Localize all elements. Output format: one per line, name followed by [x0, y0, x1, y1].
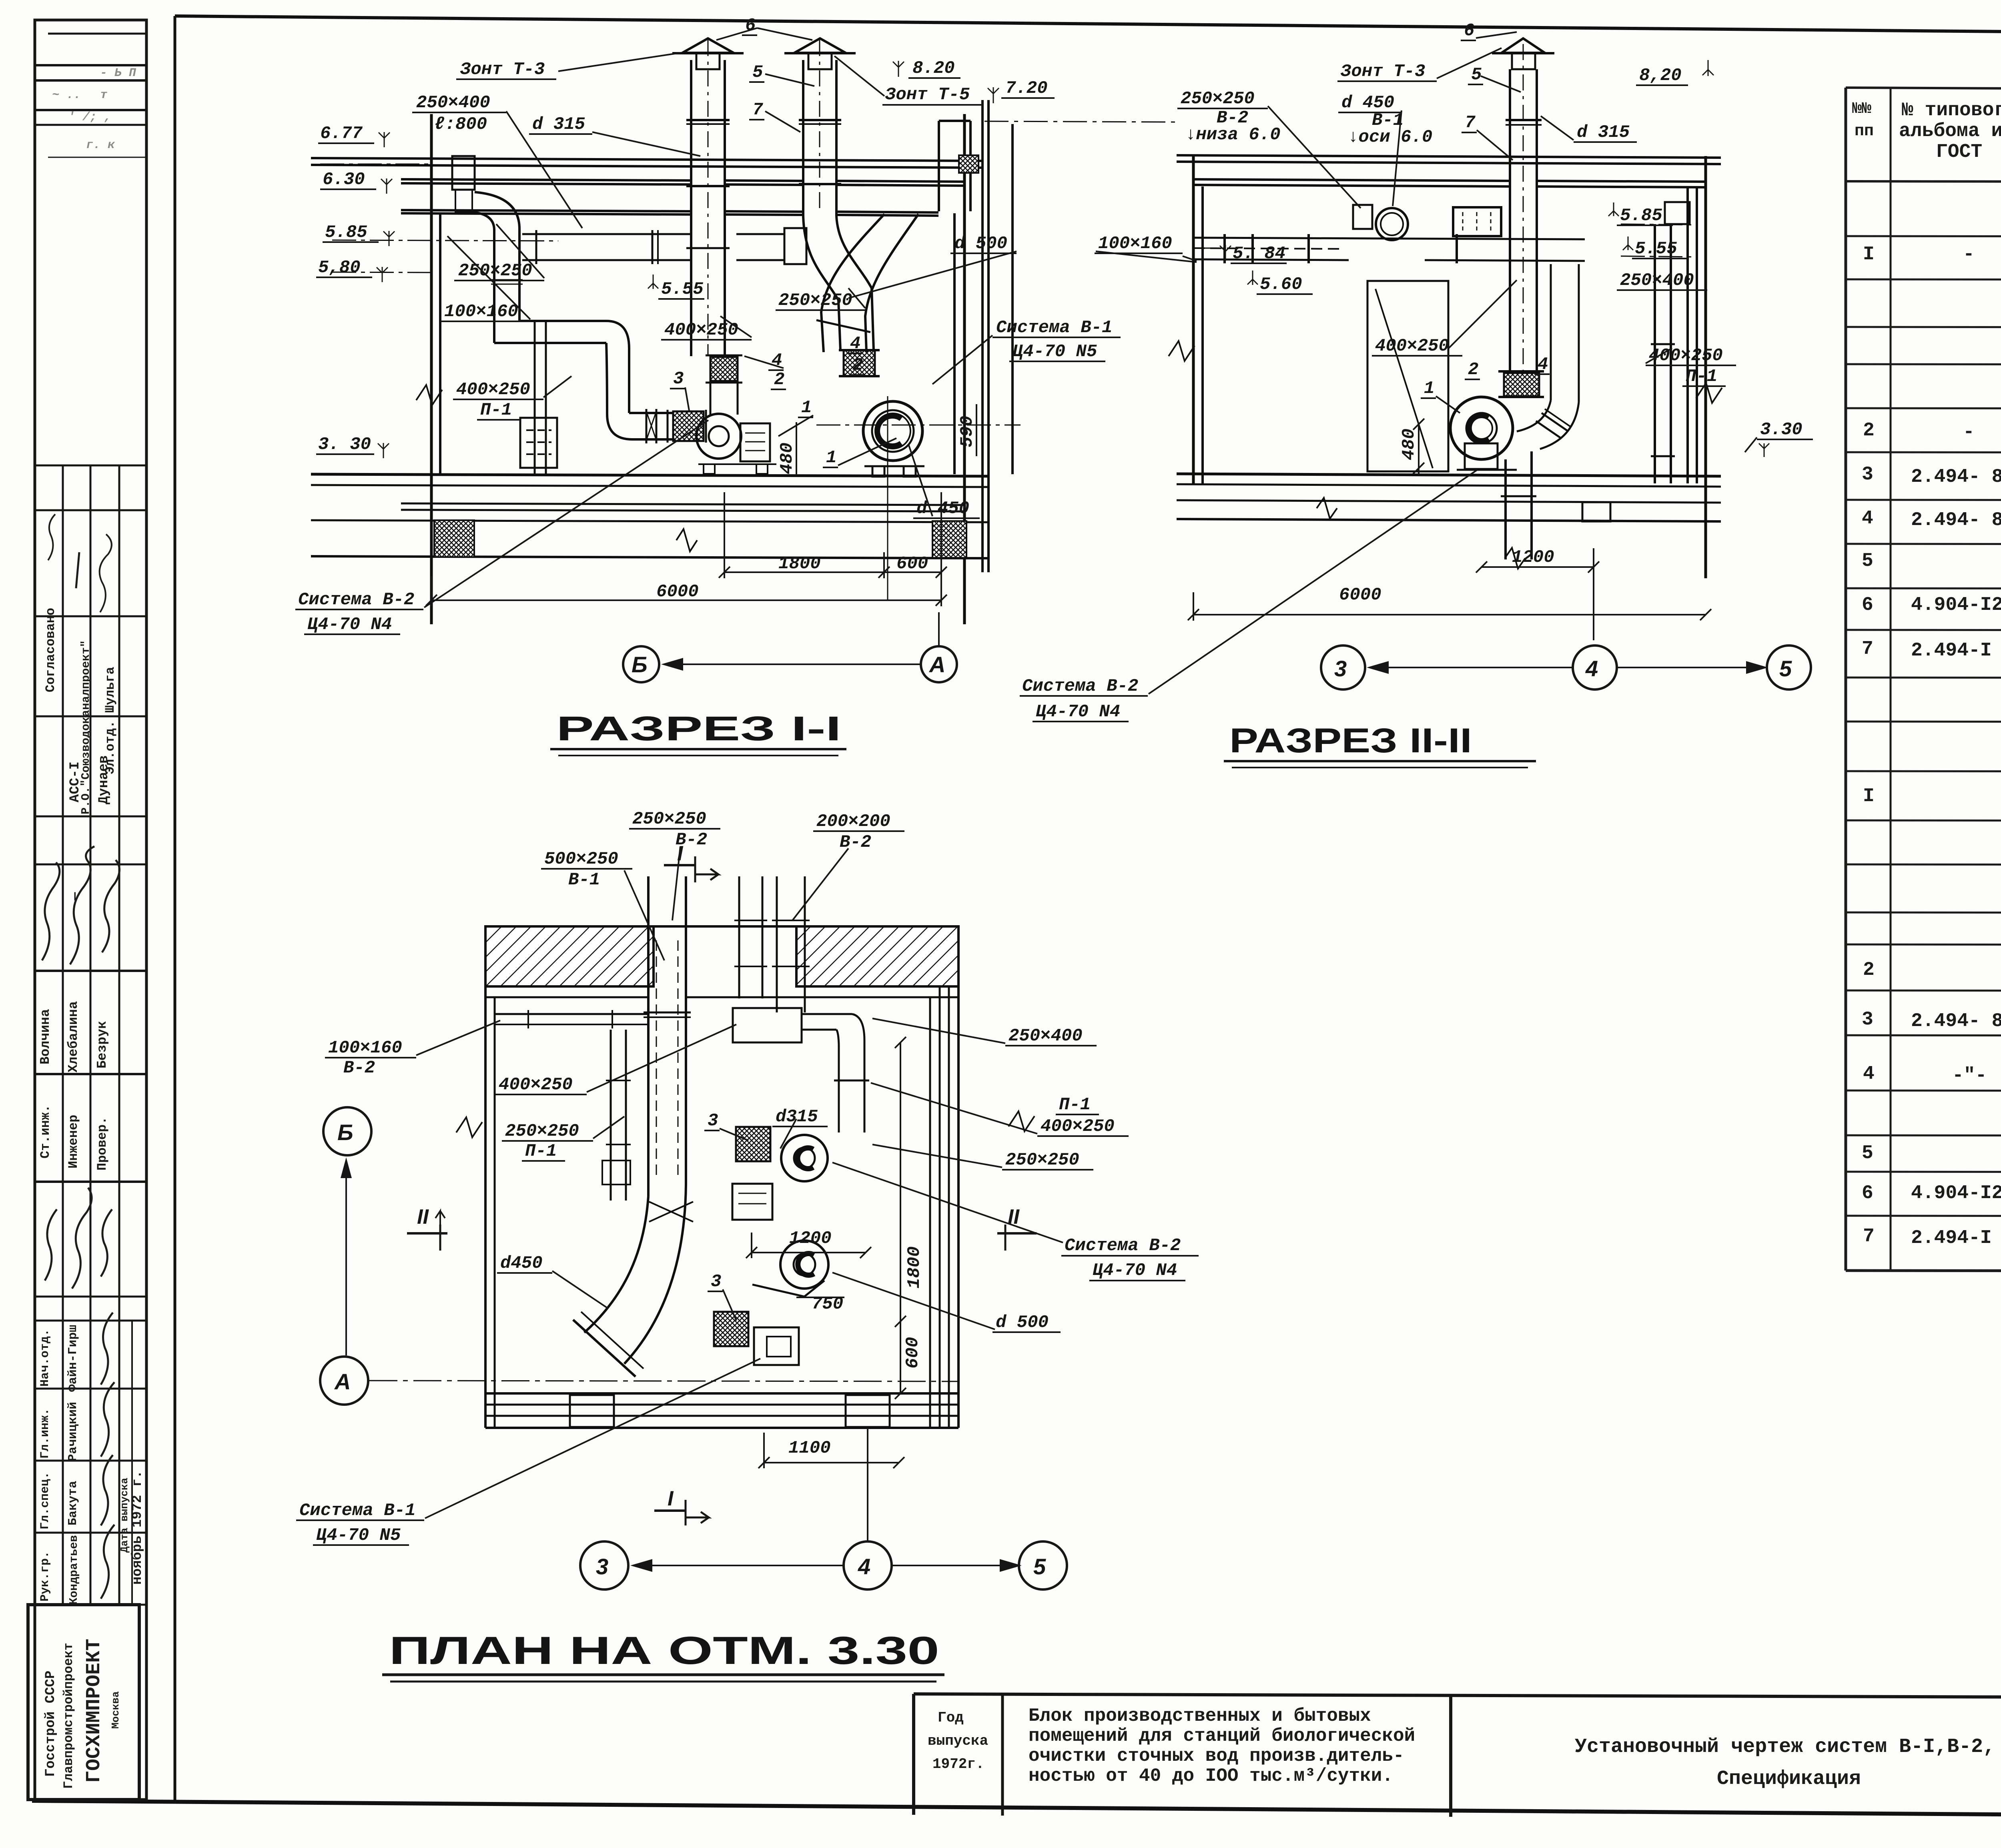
svg-text:Эл.отд. Шульга: Эл.отд. Шульга	[103, 667, 118, 774]
svg-text:1: 1	[801, 398, 812, 418]
svg-text:6: 6	[1464, 21, 1474, 41]
svg-text:Ц4-70 N4: Ц4-70 N4	[307, 615, 392, 635]
svg-text:6: 6	[1862, 594, 1873, 616]
svg-text:7: 7	[1863, 1226, 1875, 1247]
svg-text:—: —	[68, 892, 83, 901]
svg-text:100×160: 100×160	[1098, 234, 1172, 254]
svg-text:Волчина: Волчина	[38, 1009, 53, 1064]
svg-text:6000: 6000	[656, 582, 699, 602]
svg-text:6000: 6000	[1339, 585, 1381, 605]
svg-text:Ц4-70 N5: Ц4-70 N5	[1013, 342, 1097, 362]
svg-text:5: 5	[1033, 1554, 1046, 1579]
svg-text:5.55: 5.55	[1635, 239, 1677, 259]
svg-text:1800: 1800	[904, 1246, 924, 1289]
svg-text:Дата выпуска: Дата выпуска	[118, 1478, 130, 1553]
svg-text:В-1: В-1	[568, 870, 600, 890]
svg-text:7.20: 7.20	[1005, 78, 1048, 98]
svg-text:5: 5	[752, 62, 763, 82]
svg-text:3: 3	[673, 369, 684, 389]
svg-text:4: 4	[858, 1554, 870, 1579]
svg-text:ГОСХИМПРОЕКТ: ГОСХИМПРОЕКТ	[83, 1639, 106, 1783]
svg-text:I: I	[1863, 244, 1875, 265]
svg-text:' /; ,: ' /; ,	[68, 110, 111, 124]
svg-text:4: 4	[1863, 1063, 1875, 1085]
svg-text:250×400: 250×400	[1620, 271, 1694, 291]
svg-text:Система В-2: Система В-2	[1022, 676, 1138, 696]
svg-text:I: I	[668, 1487, 674, 1510]
svg-text:4: 4	[1538, 355, 1548, 375]
svg-text:П-1: П-1	[525, 1141, 557, 1161]
svg-text:В-2: В-2	[840, 832, 871, 852]
svg-text:~ .. т: ~ .. т	[52, 88, 107, 102]
svg-text:d315: d315	[776, 1107, 818, 1127]
svg-text:5.60: 5.60	[1260, 275, 1302, 295]
svg-text:-"-: -"-	[1952, 1065, 1987, 1086]
svg-text:400×250: 400×250	[456, 380, 530, 400]
svg-text:П-1: П-1	[1686, 367, 1717, 387]
svg-text:Система В-2: Система В-2	[298, 590, 414, 610]
svg-text:5: 5	[1862, 1142, 1873, 1164]
svg-text:480: 480	[1399, 429, 1419, 460]
svg-text:600: 600	[896, 554, 928, 574]
svg-text:400×250: 400×250	[664, 320, 738, 340]
svg-text:II: II	[1008, 1205, 1020, 1229]
svg-text:100×160: 100×160	[328, 1038, 402, 1058]
svg-text:d 315: d 315	[1577, 122, 1630, 142]
svg-text:6: 6	[745, 16, 756, 36]
svg-text:-: -	[1963, 421, 1975, 443]
svg-text:№ типового: № типового	[1902, 100, 2001, 121]
svg-text:d 450: d 450	[1341, 93, 1394, 113]
svg-text:5,80: 5,80	[318, 258, 361, 278]
svg-text:250×250: 250×250	[632, 809, 706, 829]
svg-text:1972г.: 1972г.	[932, 1756, 984, 1772]
svg-text:1200: 1200	[1512, 547, 1554, 567]
svg-text:5: 5	[1862, 550, 1873, 572]
svg-text:Рук.гр.: Рук.гр.	[38, 1551, 52, 1601]
svg-text:7: 7	[1465, 113, 1476, 133]
svg-text:Нач.отд.: Нач.отд.	[38, 1329, 52, 1387]
svg-text:ноябрь 1972 г.: ноябрь 1972 г.	[130, 1470, 145, 1585]
svg-text:4.904-I2: 4.904-I2	[1911, 1183, 2001, 1204]
svg-text:ПЛАН НА ОТМ. 3.30: ПЛАН НА ОТМ. 3.30	[389, 1628, 939, 1672]
svg-text:↓низа 6.0: ↓низа 6.0	[1185, 125, 1281, 145]
svg-text:250×250: 250×250	[1005, 1150, 1079, 1170]
svg-text:Главпромстройпроект: Главпромстройпроект	[61, 1643, 76, 1789]
svg-text:А: А	[928, 652, 945, 677]
svg-text:А: А	[334, 1369, 351, 1394]
svg-text:№№: №№	[1852, 100, 1871, 118]
svg-text:Бакута: Бакута	[66, 1481, 80, 1525]
svg-text:3: 3	[1334, 656, 1347, 681]
svg-text:3.30: 3.30	[1760, 420, 1803, 440]
svg-text:600: 600	[903, 1337, 923, 1369]
svg-text:выпуска: выпуска	[928, 1733, 988, 1749]
svg-text:В-2: В-2	[343, 1058, 375, 1078]
svg-text:3. 30: 3. 30	[318, 435, 371, 455]
svg-text:8,20: 8,20	[1639, 66, 1682, 86]
svg-text:500×250: 500×250	[544, 849, 618, 869]
svg-text:I: I	[677, 842, 684, 865]
svg-text:2.494- 8в.I: 2.494- 8в.I	[1911, 466, 2001, 488]
svg-text:3: 3	[708, 1111, 718, 1131]
svg-text:Система В-1: Система В-1	[996, 318, 1112, 338]
svg-text:Файн-Гирш: Файн-Гирш	[66, 1325, 80, 1392]
svg-text:очистки сточных вод произв.дит: очистки сточных вод произв.дитель-	[1029, 1746, 1404, 1766]
svg-text:Рачицкий: Рачицкий	[66, 1402, 80, 1461]
svg-text:помещений для станций биологич: помещений для станций биологической	[1029, 1726, 1415, 1746]
svg-text:400×250: 400×250	[1375, 336, 1449, 356]
svg-text:d450: d450	[500, 1253, 543, 1273]
svg-text:d 315: d 315	[532, 114, 585, 134]
svg-text:4: 4	[1862, 508, 1873, 529]
svg-text:480: 480	[777, 443, 797, 474]
svg-text:5: 5	[1779, 656, 1792, 681]
svg-text:5. 84: 5. 84	[1233, 244, 1285, 264]
svg-text:↓оси 6.0: ↓оси 6.0	[1348, 127, 1432, 147]
svg-text:РАЗРЕЗ I-I: РАЗРЕЗ I-I	[556, 710, 841, 748]
svg-text:Провер.: Провер.	[95, 1117, 110, 1171]
svg-text:2: 2	[852, 355, 863, 375]
svg-text:Зонт Т-3: Зонт Т-3	[1340, 62, 1425, 82]
svg-text:250×250: 250×250	[458, 261, 532, 281]
svg-text:d 500: d 500	[954, 234, 1007, 254]
svg-text:Госстрой СССР: Госстрой СССР	[43, 1671, 58, 1777]
svg-text:750: 750	[812, 1294, 843, 1314]
svg-text:Б: Б	[337, 1120, 353, 1145]
svg-text:2.494- 8в.I: 2.494- 8в.I	[1911, 1010, 2001, 1032]
svg-text:2: 2	[1863, 959, 1875, 981]
svg-text:П-1: П-1	[480, 400, 512, 420]
svg-text:П-1: П-1	[1059, 1095, 1091, 1115]
svg-text:4: 4	[850, 334, 860, 354]
svg-text:250×400: 250×400	[1009, 1026, 1083, 1046]
svg-text:Зонт Т-5: Зонт Т-5	[885, 85, 970, 105]
svg-text:100×160: 100×160	[444, 302, 518, 322]
svg-text:200×200: 200×200	[816, 812, 890, 832]
svg-text:Система В-2: Система В-2	[1065, 1236, 1181, 1256]
svg-text:Установочный чертеж систем В-I: Установочный чертеж систем В-I,В-2,	[1575, 1736, 1995, 1758]
svg-text:ℓ:800: ℓ:800	[434, 114, 487, 134]
svg-text:Согласовано: Согласовано	[43, 608, 58, 692]
svg-text:пп: пп	[1855, 122, 1874, 140]
svg-text:Зонт Т-3: Зонт Т-3	[460, 60, 545, 80]
svg-text:1100: 1100	[788, 1438, 831, 1458]
svg-text:Инженер: Инженер	[66, 1115, 81, 1169]
svg-text:Хлебалина: Хлебалина	[66, 1001, 81, 1072]
svg-text:г. к: г. к	[86, 138, 115, 152]
svg-text:Ст.инж.: Ст.инж.	[38, 1105, 53, 1159]
svg-text:ностью от 40 до IOO тыс.м³/сут: ностью от 40 до IOO тыс.м³/сутки.	[1029, 1766, 1393, 1786]
svg-text:250×250: 250×250	[1181, 89, 1255, 109]
svg-text:4: 4	[1585, 656, 1598, 681]
svg-text:Гл.инж.: Гл.инж.	[38, 1408, 52, 1459]
svg-text:6: 6	[1862, 1183, 1873, 1204]
svg-text:Спецификация: Спецификация	[1717, 1768, 1861, 1790]
svg-text:Ц4-70 N4: Ц4-70 N4	[1036, 702, 1120, 722]
svg-text:250×250: 250×250	[505, 1121, 579, 1141]
svg-text:ГОСТ: ГОСТ	[1936, 141, 1982, 163]
svg-text:1800: 1800	[778, 554, 821, 574]
svg-text:2: 2	[1468, 360, 1478, 380]
svg-text:590: 590	[957, 416, 977, 447]
svg-text:- Ь П: - Ь П	[100, 66, 136, 80]
svg-text:2.494-I в.I: 2.494-I в.I	[1911, 1227, 2001, 1249]
svg-text:5.85: 5.85	[325, 222, 367, 243]
svg-text:Год: Год	[938, 1710, 964, 1726]
svg-text:5: 5	[1471, 65, 1482, 85]
svg-text:6.30: 6.30	[323, 170, 365, 190]
svg-text:Р.О."Союзводоканалпроект": Р.О."Союзводоканалпроект"	[79, 640, 92, 814]
svg-text:Безрук: Безрук	[95, 1021, 110, 1068]
svg-text:2: 2	[1863, 420, 1875, 441]
svg-text:Блок производственных и бытов: Блок производственных и бытовых	[1029, 1706, 1371, 1726]
svg-text:250×400: 250×400	[416, 93, 490, 113]
svg-text:-: -	[1963, 244, 1975, 265]
svg-text:Москва: Москва	[110, 1691, 122, 1729]
svg-text:Ц4-70 N4: Ц4-70 N4	[1093, 1261, 1177, 1281]
svg-text:Гл.спец.: Гл.спец.	[38, 1472, 52, 1529]
svg-text:II: II	[417, 1205, 429, 1229]
svg-text:400×250: 400×250	[499, 1075, 573, 1095]
svg-text:2.494-I в.I: 2.494-I в.I	[1911, 640, 2001, 661]
svg-text:3: 3	[711, 1272, 721, 1292]
svg-text:6.77: 6.77	[320, 124, 363, 144]
svg-text:2.494- 8в.I: 2.494- 8в.I	[1911, 509, 2001, 531]
svg-text:Система В-1: Система В-1	[299, 1501, 415, 1521]
svg-text:3: 3	[1862, 464, 1873, 485]
svg-text:7: 7	[752, 100, 763, 120]
svg-text:1: 1	[826, 448, 836, 468]
svg-text:Кондратьев: Кондратьев	[67, 1535, 80, 1605]
svg-text:I: I	[1863, 786, 1875, 807]
svg-text:8.20: 8.20	[912, 58, 955, 78]
svg-text:d 500: d 500	[996, 1313, 1049, 1333]
svg-text:400×250: 400×250	[1041, 1116, 1115, 1136]
svg-text:3: 3	[1862, 1009, 1873, 1030]
svg-text:Б: Б	[632, 652, 648, 677]
svg-text:5.55: 5.55	[661, 279, 704, 299]
svg-text:3: 3	[596, 1554, 608, 1579]
svg-text:2: 2	[774, 370, 784, 390]
svg-text:7: 7	[1862, 638, 1873, 660]
svg-text:Ц4-70 N5: Ц4-70 N5	[316, 1525, 401, 1545]
svg-text:250×250: 250×250	[778, 291, 852, 311]
svg-text:альбома или: альбома или	[1899, 120, 2001, 142]
svg-text:1: 1	[1424, 379, 1434, 399]
svg-text:5.85: 5.85	[1620, 206, 1662, 226]
svg-text:d 450: d 450	[916, 499, 969, 519]
svg-text:РАЗРЕЗ II-II: РАЗРЕЗ II-II	[1229, 722, 1472, 760]
svg-text:1200: 1200	[789, 1229, 832, 1249]
svg-text:4.904-I2: 4.904-I2	[1911, 594, 2001, 616]
